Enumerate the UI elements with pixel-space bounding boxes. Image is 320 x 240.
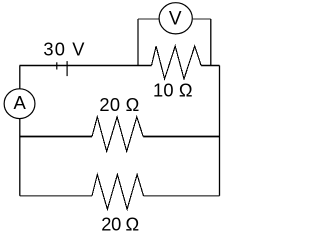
svg-text:A: A [14,92,27,113]
wire top (left of battery) [20,65,152,67]
svg-text:20 Ω: 20 Ω [99,94,139,115]
ammeter A circle [4,89,35,119]
battery B1 long plate [66,61,68,76]
svg-text:V: V [169,9,182,30]
svg-text:10 Ω: 10 Ω [153,79,193,100]
wire voltmeter branch right vertical [210,19,212,66]
wire right vertical [219,66,221,196]
wire middle rail left [20,136,92,138]
wire bottom rail right [144,195,220,197]
battery B1 short plate [56,62,58,69]
wire left vertical (top corner to ammeter) [19,66,21,89]
svg-text:20 Ω: 20 Ω [101,214,139,233]
resistor R1 10 ohm zigzag [152,46,202,79]
wire left vertical (ammeter to bottom rail) [19,119,21,196]
wire bottom rail left [20,195,92,197]
resistor R3 20 ohm zigzag (bottom) [92,175,144,210]
svg-text:30 V: 30 V [43,39,85,60]
wire top (resistor R1 to top-right corner) [201,65,219,67]
resistor R2 20 ohm zigzag (middle) [92,117,143,151]
wire voltmeter branch top-right horizontal [192,18,211,20]
voltmeter V circle [159,3,192,34]
wire middle rail right [143,136,219,138]
wire voltmeter branch left vertical [137,19,139,66]
wire voltmeter branch top-left horizontal [138,18,160,20]
